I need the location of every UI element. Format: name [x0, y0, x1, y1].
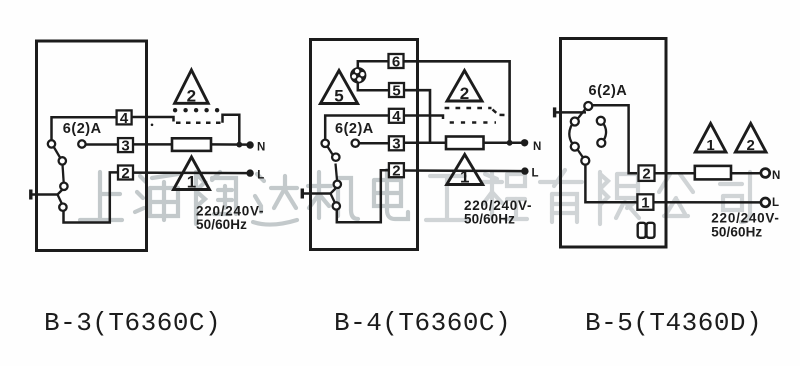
svg-text:L: L	[772, 197, 779, 209]
switch contact B	[59, 157, 66, 164]
link sensor to contact C	[58, 190, 63, 195]
svg-text:2: 2	[747, 137, 755, 154]
terminal 2	[389, 163, 404, 177]
L terminal dot	[246, 169, 253, 176]
wire: sensor into box B-4	[302, 192, 330, 195]
N terminal dot B-4	[521, 139, 528, 146]
svg-text:3: 3	[392, 136, 400, 153]
heat demand triangle 2	[175, 70, 209, 103]
terminal 5	[389, 83, 404, 97]
switch contact A B-4 (common)	[322, 140, 329, 147]
anticipator dotted row	[173, 108, 177, 112]
svg-text:50/60Hz: 50/60Hz	[196, 217, 247, 232]
svg-text:4: 4	[120, 110, 129, 127]
svg-text:6(2)A: 6(2)A	[63, 121, 102, 137]
wire: resistor to N	[211, 143, 249, 146]
svg-text:50/60Hz: 50/60Hz	[711, 224, 762, 239]
timer icon	[638, 223, 646, 238]
thermostat body box B-4	[311, 40, 418, 250]
terminal 6	[389, 54, 404, 68]
N terminal dot	[246, 141, 253, 148]
svg-text:2: 2	[392, 163, 400, 180]
anticipator resistor B-5	[695, 166, 731, 180]
wire: rotary bottom to terminal 1	[585, 164, 637, 202]
wire: lamp to terminal 5	[358, 83, 389, 91]
heat demand triangle 2 B-4	[447, 71, 482, 102]
wire: terminal 2 to L	[405, 169, 525, 172]
rotary contact upper-left	[571, 118, 579, 126]
rotary link to bottom	[578, 150, 584, 158]
wire: switch common up to terminal 4	[325, 116, 388, 141]
svg-text:N: N	[772, 170, 780, 182]
wire: contact to terminal 3	[359, 142, 390, 145]
wire: resistor to N ring	[731, 172, 761, 175]
switch contact E (to terminal 3)	[78, 140, 85, 147]
svg-text:5: 5	[334, 87, 343, 106]
wire: resistor to N	[484, 142, 524, 145]
terminal 1 B-5	[637, 194, 653, 210]
rotary contact lower-right	[597, 139, 605, 147]
L terminal dot B-4	[521, 167, 528, 174]
wire: contact to terminal 3	[86, 143, 119, 146]
wire: terminal 3 to resistor	[405, 142, 446, 145]
anticipator dashed wire	[176, 122, 223, 125]
terminal 4	[117, 110, 132, 124]
wire: bottom run up to terminal 2 B-4	[337, 170, 389, 222]
anticipator resistor B-4	[446, 137, 484, 150]
load triangle 1 B-5	[695, 123, 726, 152]
wire B to C B-4	[336, 164, 338, 181]
svg-text:220/240V-: 220/240V-	[711, 210, 779, 225]
rotary left arc	[569, 125, 572, 144]
switch contact A (common)	[48, 140, 55, 147]
svg-text:1: 1	[460, 168, 469, 187]
svg-text:B-3(T6360C): B-3(T6360C)	[44, 308, 221, 338]
switch contact E B-4 (to terminal 3)	[352, 140, 359, 147]
svg-text:1: 1	[641, 195, 649, 212]
rotary contact lower-left	[571, 143, 579, 151]
svg-text:6: 6	[392, 53, 400, 70]
junction dot B-4	[507, 140, 513, 146]
watermark company name	[80, 170, 750, 225]
link sensor to contact C B-4	[331, 189, 336, 194]
svg-text:N: N	[533, 141, 541, 153]
svg-text:220/240V-: 220/240V-	[196, 203, 264, 218]
rotary contact top	[584, 102, 592, 110]
indicator lamp	[350, 67, 366, 83]
anticipator dash row lower B-4	[450, 121, 496, 124]
terminal 3	[389, 136, 404, 150]
sensor probe B-5	[553, 107, 556, 117]
switch contact C B-4	[334, 181, 341, 188]
load triangle 1 B-4	[447, 155, 483, 185]
svg-text:B-4(T6360C): B-4(T6360C)	[334, 308, 511, 338]
sensor probe B-3	[29, 190, 32, 200]
svg-text:6(2)A: 6(2)A	[335, 121, 374, 137]
terminal 2 B-5	[639, 165, 655, 181]
rotary right arc	[604, 124, 607, 140]
svg-text:B-5(T4360D): B-5(T4360D)	[585, 308, 762, 338]
wire: terminal 6 to N rail	[405, 61, 510, 143]
switch blade A-B B-4	[327, 146, 334, 157]
svg-text:2: 2	[460, 84, 469, 103]
terminal 3	[118, 138, 133, 152]
wire: terminal 2 to L	[133, 171, 250, 174]
switch contact B B-4	[332, 154, 339, 161]
anticipator dash row upper B-4	[445, 107, 492, 110]
wire: bottom run up to terminal 2	[64, 172, 119, 222]
wire: terminal 5 down to terminal 3 rail	[405, 90, 431, 143]
wire: terminal 4 out to anticipator	[132, 117, 174, 122]
wire: terminal 2 to resistor	[655, 172, 695, 175]
terminal 2	[118, 166, 133, 180]
junction dot	[236, 142, 242, 148]
N ring B-5	[761, 169, 770, 178]
wire: switch common up to terminal 4	[52, 117, 117, 140]
lamp triangle 5	[320, 71, 357, 104]
load triangle 2 B-5	[735, 123, 766, 152]
svg-text:L: L	[532, 167, 539, 179]
svg-text:50/60Hz: 50/60Hz	[464, 212, 515, 227]
svg-text:2: 2	[187, 86, 196, 105]
svg-text:1: 1	[187, 173, 196, 192]
wire: lamp to terminal 6	[358, 61, 389, 69]
rotary blade	[578, 109, 586, 119]
link sensor to contact D	[58, 195, 63, 205]
switch contact D	[59, 204, 66, 211]
anticipator resistor B-3	[172, 138, 211, 151]
wire: sensor into box B-5	[555, 111, 586, 114]
wire B to C	[63, 165, 64, 183]
wire: sensor into box	[31, 193, 58, 196]
wire: terminal 1 to L ring	[653, 201, 760, 204]
rotary contact upper-right	[597, 117, 605, 125]
thermostat body box B-5	[561, 39, 667, 248]
svg-text:N: N	[257, 142, 265, 154]
load triangle 1	[174, 157, 210, 190]
svg-text:L: L	[257, 169, 264, 181]
terminal 4	[389, 109, 404, 123]
svg-text:5: 5	[392, 82, 400, 99]
svg-text:3: 3	[121, 138, 129, 155]
switch contact D B-4	[333, 202, 340, 209]
scan speck	[151, 124, 154, 127]
link sensor to contact D B-4	[331, 194, 336, 204]
wire: terminal 3 to resistor	[133, 143, 173, 146]
L ring B-5	[761, 198, 770, 207]
thermostat body box B-3	[37, 41, 147, 251]
switch blade A-B	[54, 147, 61, 158]
step to N rail	[223, 115, 240, 145]
svg-text:2: 2	[642, 166, 650, 183]
rotary contact bottom	[581, 157, 589, 165]
wire: terminal 4 to anticipator	[405, 116, 444, 120]
svg-text:4: 4	[392, 108, 401, 125]
dashed hook to N rail B-4	[493, 110, 510, 116]
switch contact C	[60, 183, 67, 190]
wire: rotary top to terminal 2	[592, 105, 637, 173]
svg-text:6(2)A: 6(2)A	[589, 83, 628, 99]
svg-text:1: 1	[706, 137, 714, 154]
sensor probe B-4	[301, 189, 304, 199]
svg-text:2: 2	[121, 165, 129, 182]
